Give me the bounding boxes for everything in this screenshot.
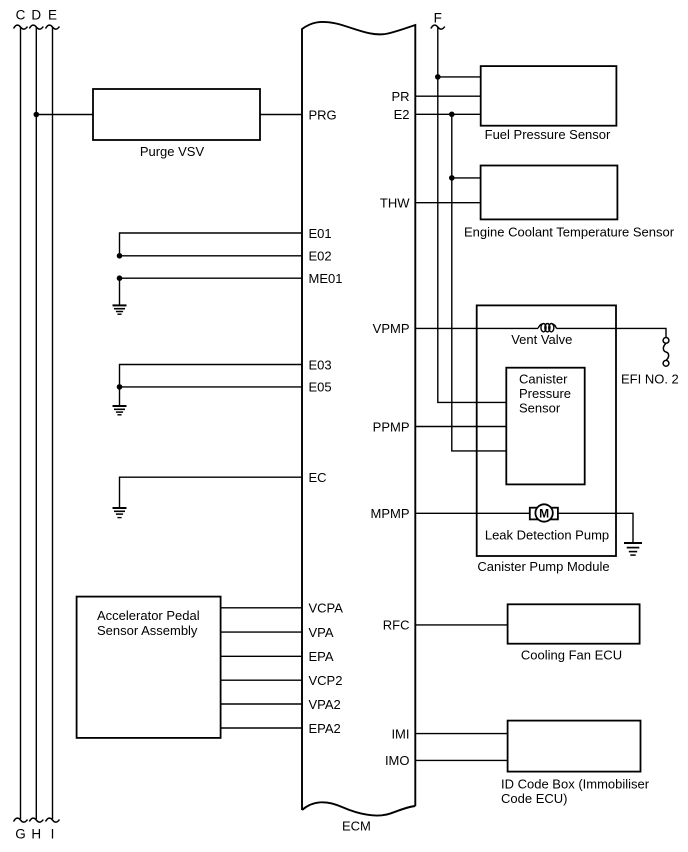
wire MPMP to pump motor [415,512,530,514]
wire PR [415,95,480,97]
ground 4 [624,543,642,555]
wire D bus [35,27,37,819]
node F [431,10,445,29]
wire branch to ECT sensor [452,177,481,179]
svg-text:Engine Coolant Temperature Sen: Engine Coolant Temperature Sensor [464,225,675,240]
wire THW [415,202,480,204]
junction dot E05 [117,384,123,390]
ground 1 [113,305,127,314]
Canister Pump Module box [477,305,616,556]
Cooling Fan ECU box [508,604,640,643]
junction dot ME01 [117,275,123,281]
svg-text:G: G [15,827,26,842]
svg-text:VCPA: VCPA [309,601,344,616]
wire EPA [221,655,302,657]
node G [14,818,28,841]
wire EPA2 [221,727,302,729]
junction dot ECT branch [449,175,455,181]
svg-text:Fuel Pressure Sensor: Fuel Pressure Sensor [485,127,611,142]
svg-text:Canister: Canister [519,371,568,386]
Accelerator Pedal Sensor Assembly box [77,597,221,738]
junction dot F/FPS [435,74,441,80]
wire E bus [52,27,54,819]
svg-text:EPA2: EPA2 [309,721,341,736]
svg-text:E: E [48,8,57,23]
wire VPA [221,631,302,633]
wire F to Fuel Pressure Sensor [438,76,481,78]
svg-text:Pressure: Pressure [519,386,571,401]
wire RFC [415,624,507,626]
svg-text:I: I [51,827,55,842]
svg-text:H: H [31,827,41,842]
svg-text:MPMP: MPMP [371,506,410,521]
wire ME01 [120,277,303,279]
svg-text:E02: E02 [309,249,332,264]
Engine Coolant Temperature Sensor box [481,166,618,220]
svg-text:VCP2: VCP2 [309,673,343,688]
node C [14,8,28,30]
svg-text:VPMP: VPMP [373,321,410,336]
svg-text:Code ECU): Code ECU) [501,791,567,806]
svg-text:M: M [539,506,549,520]
wire EC [120,477,303,507]
Canister Pressure Sensor box [506,368,584,485]
svg-text:E01: E01 [309,226,332,241]
ID Code Box [508,721,641,772]
svg-text:C: C [16,8,26,23]
wire IMO [415,759,507,761]
junction dot E2 branch [449,112,455,118]
svg-text:Sensor: Sensor [519,400,561,415]
ground 2 [113,406,127,415]
svg-text:EFI NO. 2: EFI NO. 2 [621,371,679,386]
svg-text:Leak Detection Pump: Leak Detection Pump [485,528,609,543]
svg-text:IMI: IMI [391,726,409,741]
wire to ground 2 [119,387,121,406]
wire E01 [120,233,303,256]
svg-text:Canister Pump Module: Canister Pump Module [477,559,609,574]
wire VCP2 [221,679,302,681]
Fuel Pressure Sensor box [481,66,617,126]
svg-text:Vent Valve: Vent Valve [511,332,572,347]
ECM bottom wave [302,802,415,815]
svg-text:E03: E03 [309,357,332,372]
svg-text:Purge VSV: Purge VSV [140,144,205,159]
wire Purge VSV to PRG [260,114,302,116]
wire E2 branch vertical [452,114,507,451]
junction dot E02 [117,253,123,259]
node D [29,8,43,30]
svg-text:RFC: RFC [383,618,410,633]
node H [29,818,43,841]
wire PPMP [415,426,506,428]
svg-text:D: D [31,8,41,23]
wire C bus [20,27,22,819]
svg-text:ECM: ECM [342,819,371,834]
wire VPA2 [221,703,302,705]
wire E02 [120,255,303,257]
leak detection pump motor M1 [530,504,558,521]
wire E2 [415,113,480,115]
wire E03 [120,365,303,387]
svg-text:PR: PR [391,89,409,104]
svg-text:VPA2: VPA2 [309,697,341,712]
wire VCPA [221,607,302,609]
svg-text:ID Code Box (Immobiliser: ID Code Box (Immobiliser [501,777,650,792]
svg-text:Cooling Fan ECU: Cooling Fan ECU [521,648,622,663]
wire IMI [415,733,507,735]
svg-text:Sensor Assembly: Sensor Assembly [97,623,198,638]
ground 3 [113,508,127,518]
svg-text:ME01: ME01 [309,271,343,286]
wire D to Purge VSV [36,114,93,116]
junction dot D/PurgeVSV [34,112,40,118]
wire to ground 1 [119,278,121,305]
node E [46,8,60,30]
wire motor to ground [558,513,633,542]
node I [46,818,60,841]
svg-text:PPMP: PPMP [373,419,410,434]
svg-text:E2: E2 [394,107,410,122]
svg-text:E05: E05 [309,380,332,395]
Purge VSV box [93,89,260,140]
wire F vertical [438,27,507,402]
EFI NO.2 switch connector [663,338,669,367]
svg-text:THW: THW [380,196,410,211]
wire E05 [120,386,303,388]
svg-text:PRG: PRG [309,107,337,122]
wire VPMP to vent valve [415,327,538,329]
svg-text:VPA: VPA [309,625,334,640]
ECM U1 outline [302,22,415,810]
svg-text:IMO: IMO [385,753,410,768]
vent valve coil L1 [538,324,556,332]
svg-text:Accelerator Pedal: Accelerator Pedal [97,608,200,623]
svg-text:EC: EC [309,470,327,485]
wire vent valve to EFI NO.2 [556,328,666,337]
svg-text:F: F [434,10,442,25]
svg-text:EPA: EPA [309,649,334,664]
